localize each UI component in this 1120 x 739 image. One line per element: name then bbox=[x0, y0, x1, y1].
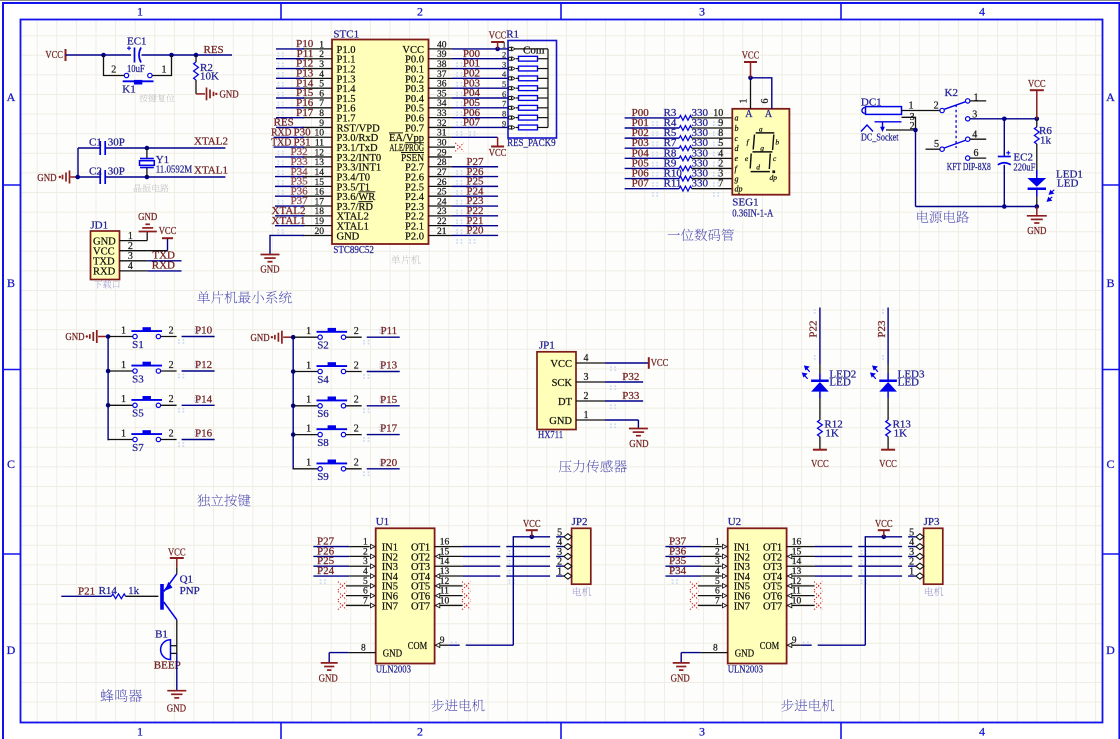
display SEG1 0.36IN-1-A bbox=[732, 109, 789, 220]
power port VCC (stepper) bbox=[875, 518, 893, 537]
capacitor C2 30P bbox=[89, 165, 125, 184]
svg-text:11: 11 bbox=[315, 139, 324, 149]
svg-text:1: 1 bbox=[137, 5, 143, 19]
svg-text:A: A bbox=[745, 109, 753, 120]
svg-text:B: B bbox=[1106, 276, 1114, 290]
no-ERC stubs OT5-OT7 bbox=[787, 582, 823, 610]
switch S3 bbox=[108, 359, 215, 385]
no-ERC mark pin30 bbox=[452, 143, 464, 151]
svg-text:2: 2 bbox=[169, 394, 174, 405]
wires P00-P07 (pins 39-32) bbox=[452, 48, 508, 129]
svg-text:LED: LED bbox=[829, 377, 850, 389]
svg-text:XTAL1: XTAL1 bbox=[272, 215, 306, 227]
svg-text:3: 3 bbox=[699, 5, 705, 19]
switch S1 bbox=[108, 325, 215, 351]
svg-text:C: C bbox=[1106, 457, 1114, 471]
svg-text:P10: P10 bbox=[195, 325, 213, 337]
output wires OT1-OT4 bbox=[787, 547, 915, 579]
svg-text:2: 2 bbox=[169, 428, 174, 439]
switch S6 bbox=[293, 394, 400, 420]
wire EC1 to RES bbox=[142, 54, 233, 56]
svg-text:1: 1 bbox=[974, 92, 979, 103]
svg-text:2: 2 bbox=[354, 360, 359, 371]
LED LED1 bbox=[1027, 168, 1082, 206]
svg-text:P20: P20 bbox=[466, 225, 484, 237]
svg-text:VCC: VCC bbox=[1028, 78, 1046, 90]
node junction at R2 bbox=[194, 53, 199, 58]
svg-text:1K: 1K bbox=[894, 427, 908, 439]
svg-text:2: 2 bbox=[417, 5, 423, 19]
svg-text:7: 7 bbox=[718, 179, 723, 190]
svg-text:11.0592M: 11.0592M bbox=[156, 163, 193, 175]
net label RES bbox=[204, 44, 224, 56]
svg-text:30: 30 bbox=[437, 139, 447, 149]
svg-text:c: c bbox=[735, 134, 739, 143]
power port VCC (pin40) bbox=[489, 29, 507, 49]
wire button bus left bbox=[106, 334, 111, 439]
net labels RXD P30 (pin10) bbox=[271, 126, 311, 138]
net labels TXD P31 (pin11) bbox=[271, 136, 311, 148]
svg-text:XTAL2: XTAL2 bbox=[194, 135, 228, 147]
ground GND (JD1 pin1) bbox=[138, 211, 157, 240]
svg-text:29: 29 bbox=[437, 148, 447, 158]
svg-text:38: 38 bbox=[437, 60, 447, 70]
svg-text:2: 2 bbox=[354, 458, 359, 469]
svg-text:DC_Socket: DC_Socket bbox=[861, 132, 899, 144]
svg-text:A: A bbox=[1106, 90, 1115, 104]
svg-text:DT: DT bbox=[558, 397, 573, 408]
switch S5 bbox=[108, 393, 215, 419]
svg-text:GND: GND bbox=[337, 231, 360, 242]
svg-text:1K: 1K bbox=[825, 427, 839, 439]
svg-text:VCC: VCC bbox=[523, 518, 541, 530]
svg-text:16: 16 bbox=[315, 188, 325, 198]
svg-text:GND: GND bbox=[549, 416, 572, 427]
svg-text:15: 15 bbox=[315, 178, 325, 188]
svg-text:d: d bbox=[756, 163, 760, 172]
power port VCC (stepper) bbox=[523, 518, 541, 537]
svg-text:R14: R14 bbox=[99, 585, 118, 597]
svg-text:6: 6 bbox=[502, 89, 506, 99]
wire bottom rail bbox=[916, 130, 1040, 209]
svg-text:EC1: EC1 bbox=[127, 35, 147, 47]
svg-text:S7: S7 bbox=[132, 442, 144, 454]
svg-text:K2: K2 bbox=[945, 87, 958, 99]
capacitor C1 30P bbox=[89, 136, 125, 155]
svg-text:13: 13 bbox=[315, 158, 325, 168]
svg-text:2: 2 bbox=[169, 325, 174, 336]
input wires P27-P24 bbox=[313, 536, 369, 577]
svg-text:GND: GND bbox=[65, 331, 84, 343]
svg-text:20: 20 bbox=[315, 227, 325, 237]
svg-text:S4: S4 bbox=[317, 374, 329, 386]
svg-text:27: 27 bbox=[437, 168, 447, 178]
svg-text:330: 330 bbox=[692, 178, 709, 190]
connector JD1 bbox=[90, 220, 147, 280]
svg-text:P32: P32 bbox=[622, 371, 639, 383]
svg-text:VCC: VCC bbox=[159, 225, 177, 237]
wires P10-P17 bbox=[276, 38, 314, 119]
resistor R14 1k bbox=[99, 585, 159, 599]
svg-text:14: 14 bbox=[315, 168, 325, 178]
svg-text:P17: P17 bbox=[296, 107, 314, 119]
svg-text:GND: GND bbox=[319, 672, 338, 684]
svg-text:U2: U2 bbox=[728, 516, 741, 528]
wire K1 branch left bbox=[104, 55, 125, 76]
svg-text:9: 9 bbox=[319, 119, 324, 129]
svg-text:1: 1 bbox=[557, 567, 562, 578]
wire DC1 pin2 bbox=[886, 121, 918, 132]
no-ERC stubs IN5-IN7 bbox=[690, 582, 722, 610]
svg-text:RES_PACK9: RES_PACK9 bbox=[507, 137, 556, 149]
svg-text:JD1: JD1 bbox=[90, 220, 108, 232]
net label P32 bbox=[605, 371, 643, 383]
svg-text:10K: 10K bbox=[200, 70, 219, 82]
svg-text:P2.0: P2.0 bbox=[405, 231, 424, 242]
svg-text:ULN2003: ULN2003 bbox=[728, 664, 764, 676]
svg-text:b: b bbox=[775, 138, 779, 147]
svg-text:5: 5 bbox=[934, 139, 939, 150]
svg-text:0.36IN-1-A: 0.36IN-1-A bbox=[732, 207, 773, 219]
svg-text:5: 5 bbox=[502, 79, 506, 89]
svg-text:1: 1 bbox=[306, 423, 311, 434]
resistor R5 330 bbox=[625, 127, 733, 140]
ground GND (power) bbox=[1027, 207, 1047, 237]
wire K2 pin3 to VCC rail bbox=[970, 117, 1039, 122]
svg-text:4: 4 bbox=[979, 725, 985, 739]
svg-text:1: 1 bbox=[739, 99, 750, 104]
LED LED2 with resistor R12 bbox=[803, 308, 857, 471]
svg-text:1: 1 bbox=[162, 64, 167, 75]
wire gap artifacts bbox=[812, 535, 908, 647]
svg-text:Com: Com bbox=[523, 44, 545, 56]
switch K1 bbox=[111, 64, 166, 95]
svg-text:4: 4 bbox=[979, 5, 985, 19]
IC U1 ULN2003 bbox=[361, 516, 450, 675]
svg-text:1: 1 bbox=[121, 325, 126, 336]
ground GND (crystal) bbox=[37, 171, 80, 184]
svg-text:GND: GND bbox=[671, 672, 690, 684]
svg-text:1: 1 bbox=[306, 395, 311, 406]
svg-text:2: 2 bbox=[111, 64, 116, 75]
resistor R4 330 bbox=[625, 117, 733, 130]
net label TXD wire bbox=[147, 250, 181, 262]
label 独立按键 bbox=[197, 494, 250, 506]
svg-text:30P: 30P bbox=[108, 165, 125, 177]
svg-text:D: D bbox=[7, 643, 16, 657]
svg-text:30P: 30P bbox=[108, 136, 125, 148]
svg-text:GND: GND bbox=[1027, 225, 1046, 237]
svg-text:4: 4 bbox=[128, 261, 133, 272]
ground GND (MCU) bbox=[260, 255, 279, 276]
svg-text:7: 7 bbox=[319, 99, 324, 109]
svg-text:dp: dp bbox=[735, 184, 743, 193]
no-ERC stubs IN5-IN7 bbox=[338, 582, 370, 610]
svg-text:2: 2 bbox=[169, 360, 174, 371]
svg-text:7: 7 bbox=[502, 99, 506, 109]
svg-text:COM: COM bbox=[408, 641, 428, 652]
svg-text:8: 8 bbox=[319, 109, 324, 119]
ground GND (buttons right) bbox=[251, 331, 294, 344]
svg-text:1: 1 bbox=[909, 100, 914, 111]
resistor R11 330 bbox=[625, 178, 733, 191]
svg-text:RXD: RXD bbox=[152, 260, 175, 272]
wire buzzer to GND bbox=[176, 653, 178, 690]
wires P27-P20 (pins 28-21) bbox=[452, 156, 498, 237]
svg-text:VCC: VCC bbox=[489, 147, 507, 159]
svg-text:10uF: 10uF bbox=[127, 63, 145, 75]
svg-text:P16: P16 bbox=[195, 428, 213, 440]
svg-text:1k: 1k bbox=[1040, 135, 1052, 147]
IC U2 ULN2003 bbox=[713, 516, 802, 675]
label 下载口 bbox=[94, 280, 120, 288]
svg-text:2: 2 bbox=[354, 423, 359, 434]
svg-text:18: 18 bbox=[315, 207, 325, 217]
wire XTAL2 rail bbox=[78, 147, 225, 149]
svg-text:e: e bbox=[735, 154, 739, 163]
svg-text:24: 24 bbox=[437, 197, 447, 207]
svg-text:R1: R1 bbox=[506, 29, 519, 41]
connector JP1 HX711 bbox=[537, 340, 605, 441]
input wires P37-P34 bbox=[665, 536, 721, 577]
label 电源电路 bbox=[917, 211, 969, 223]
svg-text:COM: COM bbox=[760, 641, 780, 652]
svg-text:10: 10 bbox=[315, 129, 325, 139]
svg-text:33: 33 bbox=[437, 109, 447, 119]
svg-text:36: 36 bbox=[437, 80, 447, 90]
svg-text:STC89C52: STC89C52 bbox=[333, 244, 374, 256]
svg-text:P17: P17 bbox=[380, 423, 398, 435]
label 压力传感器 bbox=[559, 460, 627, 473]
svg-text:XTAL1: XTAL1 bbox=[194, 164, 228, 176]
ground GND (stepper) bbox=[319, 653, 376, 685]
svg-text:A: A bbox=[7, 90, 16, 104]
svg-text:P34: P34 bbox=[669, 565, 687, 577]
svg-text:2: 2 bbox=[354, 326, 359, 337]
svg-text:VCC: VCC bbox=[879, 458, 897, 470]
svg-text:GND: GND bbox=[260, 264, 279, 276]
IC STC1 STC89C52 bbox=[302, 29, 452, 257]
svg-text:26: 26 bbox=[437, 178, 447, 188]
svg-text:2: 2 bbox=[417, 725, 423, 739]
label 蜂鸣器 bbox=[100, 689, 142, 702]
svg-text:2: 2 bbox=[319, 50, 324, 60]
switch S9 bbox=[293, 457, 400, 483]
svg-text:B1: B1 bbox=[155, 628, 168, 640]
svg-text:RES: RES bbox=[204, 44, 224, 56]
svg-text:dp: dp bbox=[770, 173, 778, 182]
svg-text:6: 6 bbox=[974, 148, 979, 159]
svg-text:GND: GND bbox=[629, 438, 648, 450]
wire K1 branch right bbox=[152, 55, 172, 76]
wire GND pin20 bbox=[270, 235, 304, 254]
svg-text:IN7: IN7 bbox=[734, 601, 750, 612]
svg-text:2: 2 bbox=[584, 391, 589, 402]
svg-text:GND: GND bbox=[251, 332, 270, 344]
svg-text:b: b bbox=[735, 124, 739, 133]
svg-text:ULN2003: ULN2003 bbox=[376, 664, 412, 676]
svg-text:P20: P20 bbox=[380, 457, 398, 469]
svg-text:S9: S9 bbox=[317, 471, 329, 483]
switch S7 bbox=[108, 428, 215, 454]
svg-text:3: 3 bbox=[502, 59, 506, 69]
svg-text:C: C bbox=[7, 457, 15, 471]
wires SEG1 top pins 1,6 bbox=[739, 76, 772, 109]
node junction right of EC1 bbox=[169, 53, 174, 58]
svg-text:1: 1 bbox=[306, 458, 311, 469]
node junction left of EC1 bbox=[101, 53, 106, 58]
wire DC1 pin1 to K2 bbox=[902, 100, 940, 111]
svg-text:P14: P14 bbox=[195, 393, 213, 405]
wire collector to buzzer bbox=[176, 620, 178, 646]
svg-text:GND: GND bbox=[138, 211, 157, 223]
label 步进电机 (left) bbox=[432, 699, 485, 711]
connector DC1 DC_Socket bbox=[861, 96, 902, 143]
svg-text:9: 9 bbox=[502, 118, 506, 128]
svg-text:35: 35 bbox=[437, 89, 447, 99]
svg-text:Q1: Q1 bbox=[180, 573, 193, 585]
svg-text:1: 1 bbox=[306, 360, 311, 371]
buzzer B1 BEEP bbox=[154, 628, 181, 671]
wire K2 pin1 stub bbox=[970, 100, 986, 102]
svg-text:GND: GND bbox=[735, 648, 755, 659]
svg-text:1: 1 bbox=[584, 410, 589, 421]
ground GND (reset) bbox=[196, 88, 239, 101]
svg-text:C1: C1 bbox=[89, 136, 102, 148]
svg-text:12: 12 bbox=[315, 148, 325, 158]
svg-text:2: 2 bbox=[502, 50, 506, 60]
svg-text:KFT DIP-8X8: KFT DIP-8X8 bbox=[947, 161, 991, 173]
svg-text:P13: P13 bbox=[380, 360, 398, 372]
svg-text:LED: LED bbox=[1057, 177, 1078, 189]
resistor R7 330 bbox=[625, 137, 733, 150]
svg-text:25: 25 bbox=[437, 188, 447, 198]
svg-text:P12: P12 bbox=[195, 359, 212, 371]
net label XTAL1 (pin19) bbox=[272, 215, 306, 227]
node junction top of Y1 bbox=[145, 146, 150, 151]
ground GND (buzzer) bbox=[167, 691, 187, 715]
wire button bus right bbox=[291, 335, 296, 469]
svg-text:A: A bbox=[765, 109, 773, 120]
svg-text:P23: P23 bbox=[876, 320, 888, 338]
wire left leg bbox=[77, 148, 79, 177]
svg-text:1: 1 bbox=[502, 40, 506, 50]
svg-text:g: g bbox=[760, 143, 764, 152]
power port VCC (power circuit) bbox=[1028, 78, 1046, 119]
svg-text:P07: P07 bbox=[632, 178, 650, 190]
capacitor EC2 220uF bbox=[998, 119, 1036, 207]
net label XTAL2 bbox=[194, 135, 228, 147]
svg-text:C2: C2 bbox=[89, 165, 102, 177]
svg-text:S5: S5 bbox=[132, 408, 144, 420]
svg-text:1: 1 bbox=[121, 428, 126, 439]
resistor R8 330 bbox=[625, 147, 733, 160]
svg-text:VCC: VCC bbox=[875, 518, 893, 530]
net label XTAL1 bbox=[194, 164, 228, 176]
speckle artifacts bbox=[456, 62, 458, 67]
svg-text:VCC: VCC bbox=[168, 546, 186, 558]
wire P21 input bbox=[61, 586, 111, 598]
svg-text:220uF: 220uF bbox=[1013, 162, 1035, 174]
svg-text:R11: R11 bbox=[664, 178, 682, 190]
net label RXD wire bbox=[147, 260, 181, 272]
svg-text:OT7: OT7 bbox=[411, 601, 430, 612]
connector JP3 bbox=[909, 516, 943, 584]
svg-text:19: 19 bbox=[315, 217, 325, 227]
svg-text:3: 3 bbox=[699, 725, 705, 739]
resistor pack R1 RES_PACK9 bbox=[502, 29, 556, 150]
label 单片机最小系统 bbox=[197, 291, 291, 304]
svg-text:S1: S1 bbox=[132, 339, 144, 351]
crystal Y1 11.0592M bbox=[140, 148, 193, 177]
svg-text:3: 3 bbox=[584, 372, 589, 383]
svg-text:5: 5 bbox=[319, 80, 324, 90]
wire COM to VCC rail bbox=[435, 535, 563, 648]
wire K2 pin4 stub bbox=[970, 138, 986, 140]
svg-text:S8: S8 bbox=[317, 437, 329, 449]
wire K2 pin6 stub bbox=[970, 157, 986, 159]
svg-text:U1: U1 bbox=[376, 516, 389, 528]
power port VCC (buzzer) bbox=[168, 546, 186, 573]
power port VCC (reset) bbox=[45, 49, 65, 61]
svg-text:a: a bbox=[735, 114, 739, 123]
wire XTAL1 rail bbox=[78, 176, 225, 178]
svg-text:P24: P24 bbox=[317, 565, 335, 577]
power port VCC (JD1 pin2) bbox=[147, 225, 176, 251]
label 电机 bbox=[925, 587, 943, 596]
svg-text:a: a bbox=[759, 125, 763, 134]
svg-text:1: 1 bbox=[306, 326, 311, 337]
svg-text:VCC: VCC bbox=[550, 359, 572, 370]
svg-text:VCC: VCC bbox=[45, 49, 63, 61]
svg-text:GND: GND bbox=[383, 648, 403, 659]
output wires OT1-OT4 bbox=[435, 547, 563, 579]
svg-text:PNP: PNP bbox=[180, 585, 200, 597]
power port VCC (pin31 EA/Vpp) bbox=[452, 137, 506, 159]
label 单片机 bbox=[391, 255, 420, 264]
svg-text:S6: S6 bbox=[317, 408, 329, 420]
svg-text:4: 4 bbox=[502, 69, 507, 79]
label 电机 bbox=[573, 587, 591, 596]
svg-text:RXD: RXD bbox=[93, 267, 116, 278]
resistor R3 330 bbox=[625, 107, 733, 120]
switch S2 bbox=[293, 325, 400, 351]
svg-text:IN7: IN7 bbox=[382, 601, 398, 612]
svg-text:4: 4 bbox=[584, 353, 589, 364]
LED LED3 with resistor R13 bbox=[871, 308, 925, 471]
svg-text:P21: P21 bbox=[78, 586, 95, 598]
svg-text:2: 2 bbox=[354, 395, 359, 406]
svg-text:1: 1 bbox=[121, 394, 126, 405]
svg-text:JP1: JP1 bbox=[539, 340, 555, 352]
svg-text:28: 28 bbox=[437, 158, 447, 168]
svg-text:4: 4 bbox=[319, 70, 324, 80]
power port VCC (JP1) bbox=[605, 357, 668, 369]
svg-text:GND: GND bbox=[167, 702, 186, 714]
svg-text:21: 21 bbox=[437, 227, 447, 237]
svg-text:JP2: JP2 bbox=[572, 516, 588, 528]
svg-text:HX711: HX711 bbox=[538, 429, 563, 441]
svg-text:40: 40 bbox=[437, 40, 447, 50]
switch S4 bbox=[293, 360, 400, 386]
label 步进电机 (right) bbox=[781, 699, 834, 711]
resistor R2 10K bbox=[194, 55, 219, 94]
svg-text:P33: P33 bbox=[622, 390, 640, 402]
no-ERC stubs OT5-OT7 bbox=[435, 582, 471, 610]
svg-text:B: B bbox=[7, 276, 15, 290]
label 晶振电路 bbox=[134, 184, 169, 192]
ground GND (stepper) bbox=[671, 653, 728, 685]
